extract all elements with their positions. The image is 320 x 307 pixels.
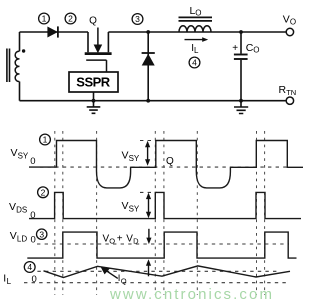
svg-text:3: 3 xyxy=(39,229,44,239)
svg-text:O: O xyxy=(253,46,259,55)
svg-text:SSPR: SSPR xyxy=(76,75,111,90)
svg-text:V: V xyxy=(283,14,290,26)
svg-text:SY: SY xyxy=(18,152,29,161)
svg-text:0: 0 xyxy=(31,235,36,246)
svg-text:4: 4 xyxy=(192,58,197,68)
svg-text:V: V xyxy=(122,200,129,212)
svg-text:TN: TN xyxy=(286,88,296,97)
svg-text:+: + xyxy=(232,43,238,54)
svg-text:L: L xyxy=(7,277,12,286)
svg-text:3: 3 xyxy=(135,14,140,24)
svg-text:LD: LD xyxy=(17,234,27,243)
svg-text:Q: Q xyxy=(89,16,97,27)
svg-text:D: D xyxy=(133,237,139,246)
svg-text:2: 2 xyxy=(41,187,46,197)
svg-text:1: 1 xyxy=(43,135,48,145)
svg-text:V: V xyxy=(11,147,18,159)
svg-text:4: 4 xyxy=(27,262,32,272)
svg-text:O: O xyxy=(109,237,115,246)
svg-text:0: 0 xyxy=(30,210,35,221)
svg-text:Q: Q xyxy=(166,156,174,167)
svg-text:www.cntronics.com: www.cntronics.com xyxy=(109,286,274,303)
svg-text:SY: SY xyxy=(129,154,140,163)
svg-text:+: + xyxy=(117,234,123,245)
svg-text:0: 0 xyxy=(32,274,37,285)
svg-text:DS: DS xyxy=(16,206,27,215)
svg-text:V: V xyxy=(9,201,16,213)
svg-text:V: V xyxy=(122,149,129,161)
svg-text:L: L xyxy=(194,46,199,55)
svg-text:2: 2 xyxy=(68,14,73,24)
svg-text:V: V xyxy=(10,230,17,242)
svg-text:1: 1 xyxy=(42,14,47,24)
svg-text:Q: Q xyxy=(121,276,127,285)
svg-text:O: O xyxy=(290,17,296,26)
svg-text:O: O xyxy=(195,9,201,18)
svg-text:0: 0 xyxy=(30,156,35,167)
svg-text:SY: SY xyxy=(129,205,140,214)
